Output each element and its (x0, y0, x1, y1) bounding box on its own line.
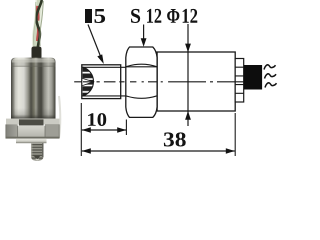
cable (black) (244, 65, 262, 90)
fitting socket arc (83, 67, 94, 96)
38 dimension text (164, 132, 186, 146)
hex nut upper division line (126, 66, 157, 68)
photo faint right-edge streak (59, 96, 60, 138)
10 dimension extension line left (80, 103, 82, 156)
38 dimension extension line right (234, 113, 236, 156)
label Phi 12 (167, 9, 179, 23)
photo cylinder body (11, 58, 56, 119)
photo hex nut top highlight band (6, 119, 60, 125)
hex nut silhouette (126, 47, 157, 117)
leader arrow for square-5 (88, 25, 104, 65)
phi12 dimension line (185, 24, 191, 126)
fitting thread root lines (82, 67, 126, 96)
leader arrow for S12 (141, 25, 147, 47)
hex nut upper chamfer arc (126, 64, 157, 67)
10 dimension right arrowhead (117, 127, 126, 133)
10 dimension left arrowhead (82, 127, 91, 133)
10 dimension extension line right (125, 120, 127, 136)
photo wire red strand upper (36, 6, 40, 21)
photo grommet (32, 47, 42, 60)
strain relief ladder (235, 59, 244, 103)
photo hex nut top dark face (19, 119, 44, 125)
photo wire red strand lower (38, 27, 39, 41)
photo cylinder bottom shading (11, 108, 56, 119)
photo wire sheath left edge (34, 2, 36, 47)
10 dimension text (88, 113, 106, 126)
label 5 text (95, 9, 106, 23)
fitting (set screw) outline (82, 65, 121, 99)
cable squiggle wire 1 (264, 65, 276, 70)
label S 12 (131, 9, 140, 23)
photo hex nut right face (45, 124, 60, 138)
fitting socket cone lines (82, 78, 93, 85)
hex nut lower chamfer arc (126, 96, 157, 99)
centerline (74, 81, 243, 83)
photo washer (16, 139, 47, 144)
38 dimension left arrowhead (82, 148, 91, 154)
photo cylinder cap seam (11, 65, 56, 68)
body cylinder outline (157, 52, 235, 111)
38 dimension right arrowhead (226, 148, 235, 154)
38 dimension line (82, 150, 235, 152)
photo hex nut left face (6, 124, 18, 137)
label square-5 symbol (85, 9, 92, 23)
photo wire sheath right edge (40, 1, 43, 46)
photo wire sheath (36, 0, 40, 48)
fitting socket white wedge (82, 78, 93, 85)
photo wire dark strand spiral (36, 0, 42, 48)
photo cylinder top rim highlight (12, 58, 55, 62)
photo hex nut face edges (6, 125, 59, 139)
fitting socket hatch (83, 67, 94, 96)
photo wire pale-green strand (36, 0, 39, 48)
photo threaded stud (31, 143, 44, 161)
photo hex nut center face (18, 126, 46, 138)
cable squiggle wire 2 (265, 74, 277, 79)
10 dimension line (82, 129, 126, 131)
cable squiggle wire 3 (265, 83, 277, 88)
photo hex nut bottom edge (6, 137, 60, 139)
photo cylinder cap band (11, 60, 56, 67)
